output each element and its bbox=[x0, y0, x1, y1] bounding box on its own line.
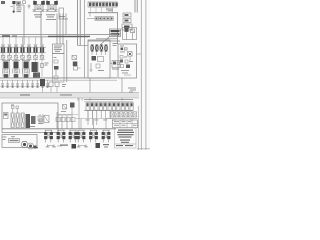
frame bottom corner line bbox=[137, 148, 150, 150]
left pair drop bbox=[39, 114, 41, 124]
right bank bus bbox=[84, 98, 133, 100]
solenoid valve SV3 bbox=[46, 1, 50, 5]
bottom manifold line bbox=[2, 128, 116, 130]
note text bbox=[106, 9, 113, 10]
title block text bbox=[115, 128, 137, 148]
wire SV2 drop bbox=[40, 11, 42, 45]
pump unit box bbox=[2, 135, 37, 148]
control block CB1 outline bbox=[88, 40, 110, 78]
bus tick row bbox=[2, 80, 4, 84]
pilot valve PV4 bbox=[21, 44, 25, 46]
main valve MV1 bbox=[4, 62, 9, 69]
relay row K1-K5 bbox=[87, 18, 95, 20]
main valve MV3 bbox=[24, 62, 29, 69]
left riser wire bbox=[78, 98, 80, 129]
bank lower wires bbox=[2, 60, 4, 77]
wire SV1 drop bbox=[23, 5, 25, 45]
tank T1 bbox=[47, 145, 49, 147]
wire right pair bbox=[134, 0, 136, 13]
right bank under line bbox=[106, 118, 138, 120]
bus gauge G2 bbox=[55, 82, 59, 87]
pilot bus right seg bbox=[88, 40, 120, 42]
terminal block dark bbox=[72, 144, 77, 149]
pilot valve PV5 bbox=[27, 44, 31, 46]
E1 dark cluster bbox=[26, 114, 31, 128]
bus label bbox=[2, 35, 10, 37]
band drop wires bbox=[77, 98, 79, 101]
drop wires mid bbox=[56, 112, 58, 129]
tank T4 bbox=[85, 145, 87, 147]
directional valve DV5 bbox=[90, 129, 97, 131]
pilot valve PV2 bbox=[8, 44, 12, 46]
top link wires bbox=[57, 114, 78, 116]
directional valve DV1 bbox=[45, 129, 52, 131]
pilot bus upper bbox=[0, 34, 118, 36]
pilot valve PV6 bbox=[34, 44, 38, 46]
wire branch bbox=[84, 0, 86, 78]
title block side border bbox=[137, 106, 139, 150]
solenoid valve SV1 bbox=[12, 1, 15, 4]
wire M1 vertical bbox=[66, 40, 68, 82]
main valve MV2 bbox=[14, 62, 19, 69]
control block CB2 outline bbox=[118, 44, 137, 78]
bus mark bbox=[62, 84, 66, 85]
terminal strip wires bbox=[90, 7, 92, 13]
gauge row bbox=[2, 83, 4, 85]
drawing frame right border lines bbox=[140, 0, 142, 150]
CB1 internal valves bbox=[91, 45, 94, 52]
leader line bbox=[100, 37, 110, 46]
control manifold M1 bbox=[53, 44, 65, 54]
label text bbox=[59, 16, 65, 17]
pump feed lines bbox=[12, 137, 14, 139]
return bus bbox=[0, 77, 117, 79]
tank line 2 bbox=[79, 145, 87, 147]
pilot valve PV1 bbox=[1, 44, 5, 46]
pump aux blob bbox=[34, 146, 37, 149]
tick mark bbox=[28, 5, 30, 9]
pump P2 bbox=[28, 143, 34, 149]
pilot valve PV7 bbox=[40, 44, 44, 46]
group feed drops bbox=[80, 119, 82, 129]
mid connector boxes bbox=[56, 118, 60, 122]
E1 small boxes bbox=[4, 113, 9, 119]
corner fold mark bbox=[1, 1, 5, 4]
directional valve DV2 bbox=[57, 129, 64, 131]
wire pilot line pair bbox=[77, 0, 79, 46]
manifold M1 column bbox=[53, 54, 65, 83]
enclosure E1 outline bbox=[2, 103, 58, 133]
wire SV3 drops bbox=[56, 14, 58, 45]
connector J1 stack bbox=[123, 13, 131, 17]
conveyor band bbox=[0, 93, 139, 98]
pilot valve PV3 bbox=[14, 44, 18, 46]
filter F1 bbox=[63, 105, 67, 110]
connector marks bbox=[58, 114, 61, 117]
tank T2 bbox=[53, 145, 55, 147]
pump P1 bbox=[21, 141, 27, 147]
block drop wires bbox=[89, 78, 91, 93]
bottom label 2 bbox=[103, 144, 109, 145]
title block table bbox=[113, 120, 138, 128]
pilot group PG1 bbox=[112, 61, 120, 68]
relief valve RV1 bbox=[123, 28, 137, 40]
check valve CV1 bbox=[72, 56, 77, 60]
solenoid valve SV3 label bbox=[46, 14, 55, 15]
directional valve DV3 bbox=[69, 129, 76, 131]
E1 sensors bbox=[11, 105, 14, 106]
tank T3 bbox=[78, 145, 80, 147]
right bank labels bbox=[86, 119, 90, 122]
terminal strip TB1 bbox=[88, 2, 117, 7]
right bank lower boxes bbox=[111, 112, 115, 117]
solenoid valve SV2 bbox=[33, 1, 37, 5]
note box N1 bbox=[110, 29, 121, 37]
bus wire under TB1 bbox=[88, 12, 118, 14]
E1 hatched bars bbox=[11, 113, 14, 128]
bank manifold line bbox=[0, 46, 46, 48]
right bank drops bbox=[87, 111, 89, 119]
small junction box bbox=[59, 8, 64, 19]
bus gauge G1 bbox=[49, 82, 53, 87]
pump label bbox=[9, 139, 20, 143]
right bank cylinders bbox=[86, 103, 89, 111]
main valve MV4 cluster bbox=[32, 62, 38, 72]
bottom label 1 bbox=[60, 145, 68, 146]
CB1 lower parts bbox=[92, 56, 97, 61]
right bank bottom line bbox=[84, 110, 133, 112]
solenoid valve SV2 label bbox=[34, 14, 42, 15]
pilot link to block bbox=[78, 45, 88, 47]
terminal block dark 2 bbox=[96, 143, 101, 148]
valve X1 bbox=[70, 103, 75, 108]
directional valve DV6 bbox=[102, 129, 109, 131]
bank feed wires bbox=[2, 37, 4, 45]
CB2 internals bbox=[120, 45, 124, 48]
right bank note bbox=[128, 88, 136, 89]
bus-mounted valve BV1 bbox=[40, 79, 45, 86]
wire TB1 to connector bbox=[117, 13, 119, 44]
directional valve DV4 bbox=[77, 129, 84, 131]
pilot bus heavy segment bbox=[48, 35, 90, 37]
tank line bbox=[48, 145, 55, 147]
